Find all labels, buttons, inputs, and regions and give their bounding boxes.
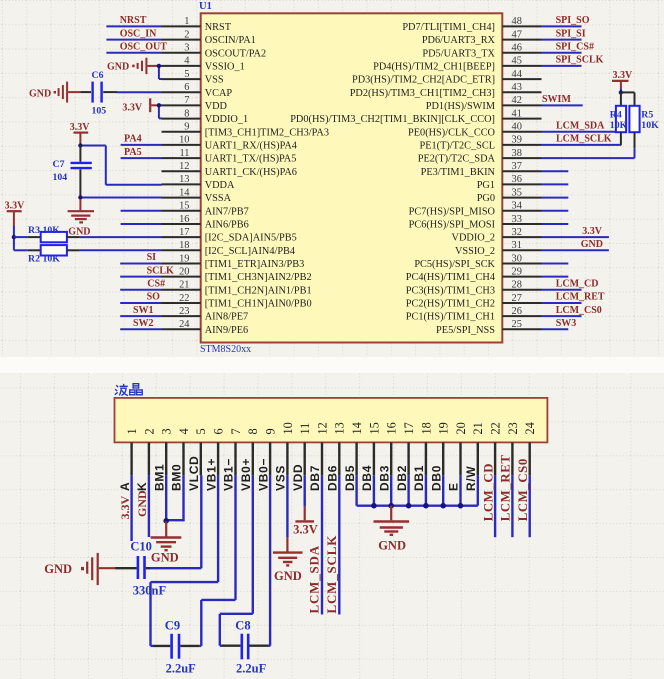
svg-text:LCM_RET: LCM_RET bbox=[556, 292, 605, 303]
svg-text:48: 48 bbox=[512, 16, 522, 27]
svg-text:PG1: PG1 bbox=[477, 180, 495, 191]
svg-text:VDD: VDD bbox=[291, 464, 305, 491]
svg-text:VB1+: VB1+ bbox=[204, 458, 218, 491]
svg-text:3.3V: 3.3V bbox=[122, 103, 142, 114]
wire VSSA pin14 bbox=[80, 197, 161, 199]
svg-text:[TIM1_ETR]AIN3/PB3: [TIM1_ETR]AIN3/PB3 bbox=[205, 259, 305, 270]
svg-text:VB0−: VB0− bbox=[256, 458, 270, 491]
svg-text:32: 32 bbox=[512, 227, 522, 238]
svg-text:VB1−: VB1− bbox=[222, 458, 236, 491]
wire pin2 GND K bbox=[148, 475, 150, 537]
U1 left pin 4 bbox=[162, 65, 201, 67]
wire SPI_CS# net bbox=[542, 52, 582, 54]
U1 right pin 44 bbox=[502, 78, 541, 80]
svg-text:PD5/UART3_TX: PD5/UART3_TX bbox=[422, 48, 495, 59]
wire pin7 to pin8 bbox=[159, 104, 162, 106]
U1 left pin 21 bbox=[162, 289, 201, 291]
U1 right pin 28 bbox=[502, 289, 541, 291]
U1 left pin 12 bbox=[162, 170, 201, 172]
svg-text:17: 17 bbox=[179, 227, 189, 238]
svg-text:12: 12 bbox=[315, 422, 329, 434]
U1 right pin 32 bbox=[502, 236, 541, 238]
wire LCM_CD pin22 bbox=[494, 475, 496, 537]
U1 left pin 13 bbox=[162, 183, 201, 185]
svg-text:41: 41 bbox=[512, 108, 522, 119]
U1 left pin 14 bbox=[162, 197, 201, 199]
svg-text:10K: 10K bbox=[43, 254, 61, 265]
junction R4/R5 top bbox=[619, 90, 623, 94]
U1 right pin 30 bbox=[502, 263, 541, 265]
U1 left pin 15 bbox=[162, 210, 201, 212]
svg-text:LCM_CS0: LCM_CS0 bbox=[556, 305, 602, 316]
svg-text:4: 4 bbox=[177, 428, 191, 434]
connector pin 8 bbox=[252, 442, 254, 475]
svg-text:R/W: R/W bbox=[464, 466, 478, 491]
svg-text:18: 18 bbox=[419, 422, 433, 434]
svg-text:PC7(HS)/SPI_MISO: PC7(HS)/SPI_MISO bbox=[409, 206, 496, 217]
svg-text:22: 22 bbox=[489, 422, 503, 434]
ground earth below data bus bbox=[390, 506, 392, 521]
svg-text:VB0+: VB0+ bbox=[239, 458, 253, 491]
U1 left pin 8 bbox=[162, 118, 201, 120]
junction C7 top bbox=[78, 143, 82, 147]
svg-text:LCM_CS0: LCM_CS0 bbox=[516, 458, 530, 521]
connector pin 17 bbox=[407, 442, 409, 475]
wire SWIM net bbox=[542, 104, 583, 106]
wire BM0 bbox=[182, 475, 184, 521]
U1 right pin 48 bbox=[502, 25, 541, 27]
seam between two schematic screenshots bbox=[0, 357, 664, 373]
svg-text:LCM_SCLK: LCM_SCLK bbox=[556, 134, 612, 145]
svg-text:DB7: DB7 bbox=[308, 465, 322, 491]
wire 3.3V net pin32 bbox=[542, 236, 609, 238]
svg-text:19: 19 bbox=[437, 422, 451, 434]
svg-text:43: 43 bbox=[512, 82, 522, 93]
svg-text:PD1(HS)/SWIM: PD1(HS)/SWIM bbox=[426, 101, 495, 112]
svg-text:8: 8 bbox=[184, 108, 189, 119]
wire 3.3V rail to R3/R2 bbox=[13, 225, 15, 250]
svg-text:15: 15 bbox=[179, 201, 189, 212]
U1 left pin 18 bbox=[162, 249, 201, 251]
wire C10 to VLCD pin5 bbox=[150, 567, 201, 569]
wire VB0+ pin8 to C8 bbox=[252, 475, 254, 614]
junction R3 rail bbox=[12, 235, 16, 239]
wire pin38 net (to R5) bbox=[542, 157, 635, 159]
svg-text:3.3V: 3.3V bbox=[118, 496, 132, 520]
svg-text:BM0: BM0 bbox=[170, 464, 184, 491]
svg-text:18: 18 bbox=[179, 240, 189, 251]
svg-text:VDDIO_1: VDDIO_1 bbox=[205, 114, 248, 125]
wire DB7 pin12 (LCM_SDA) bbox=[321, 475, 323, 614]
connector pin 6 bbox=[217, 442, 219, 475]
svg-text:3.3V: 3.3V bbox=[293, 523, 318, 537]
svg-text:9: 9 bbox=[184, 122, 189, 133]
svg-text:[I2C_SDA]AIN5/PB5: [I2C_SDA]AIN5/PB5 bbox=[205, 233, 297, 244]
svg-text:VSSIO_2: VSSIO_2 bbox=[455, 246, 495, 257]
wire NRST net bbox=[106, 25, 161, 27]
svg-text:AIN9/PE6: AIN9/PE6 bbox=[205, 325, 248, 336]
svg-text:[TIM1_CH3N]AIN2/PB2: [TIM1_CH3N]AIN2/PB2 bbox=[205, 272, 312, 283]
connector LCD (liquid crystal) body bbox=[115, 398, 548, 443]
IC U1 STM8S20xx body bbox=[201, 13, 503, 342]
resistor R3 bbox=[14, 236, 28, 238]
svg-text:PC4(HS)/TIM1_CH4: PC4(HS)/TIM1_CH4 bbox=[406, 272, 495, 283]
svg-text:LCM_SCLK: LCM_SCLK bbox=[324, 535, 339, 614]
U1 left pin 5 bbox=[162, 78, 201, 80]
svg-text:GND: GND bbox=[107, 62, 129, 73]
U1 left pin 9 bbox=[162, 131, 201, 133]
svg-text:42: 42 bbox=[512, 95, 522, 106]
svg-text:1: 1 bbox=[125, 428, 139, 434]
connector pin 13 bbox=[338, 442, 340, 475]
wire PA4 net bbox=[121, 144, 162, 146]
svg-text:17: 17 bbox=[402, 422, 416, 434]
connector pin 23 bbox=[511, 442, 513, 475]
wire stub pin25 bbox=[542, 328, 569, 330]
wire SO net bbox=[120, 302, 161, 304]
wire LCM_CD net bbox=[542, 289, 582, 291]
svg-text:AIN8/PE7: AIN8/PE7 bbox=[205, 312, 248, 323]
U1 right pin 31 bbox=[502, 249, 541, 251]
U1 left pin 7 bbox=[162, 104, 201, 106]
ground earth below C7 bbox=[79, 199, 81, 210]
svg-text:[TIM1_CH1N]AIN0/PB0: [TIM1_CH1N]AIN0/PB0 bbox=[205, 299, 312, 310]
svg-text:PE5/SPI_NSS: PE5/SPI_NSS bbox=[436, 325, 495, 336]
svg-text:37: 37 bbox=[512, 161, 522, 172]
svg-text:3: 3 bbox=[160, 428, 174, 434]
svg-text:OSC_IN: OSC_IN bbox=[120, 28, 157, 39]
svg-text:UART1_RX/(HS)PA4: UART1_RX/(HS)PA4 bbox=[205, 141, 297, 152]
svg-text:E: E bbox=[447, 482, 461, 491]
svg-text:PE2(T)/T2C_SDA: PE2(T)/T2C_SDA bbox=[418, 154, 496, 165]
svg-text:PD3(HS)/TIM2_CH2[ADC_ETR]: PD3(HS)/TIM2_CH2[ADC_ETR] bbox=[352, 75, 495, 86]
svg-text:VSSA: VSSA bbox=[205, 193, 232, 204]
svg-text:GND: GND bbox=[135, 490, 149, 517]
svg-text:23: 23 bbox=[506, 422, 520, 434]
svg-text:25: 25 bbox=[512, 319, 522, 330]
svg-text:44: 44 bbox=[512, 69, 523, 80]
svg-text:LCM_SDA: LCM_SDA bbox=[556, 121, 605, 132]
svg-text:16: 16 bbox=[179, 214, 189, 225]
svg-text:U1: U1 bbox=[199, 1, 212, 12]
svg-text:SWIM: SWIM bbox=[542, 94, 571, 105]
svg-text:30: 30 bbox=[512, 253, 522, 264]
U1 right pin 40 bbox=[502, 131, 541, 133]
svg-text:PG0: PG0 bbox=[477, 193, 495, 204]
junction bus pin15 bbox=[371, 503, 377, 509]
svg-text:2: 2 bbox=[142, 428, 156, 434]
U1 right pin 37 bbox=[502, 170, 541, 172]
svg-text:10K: 10K bbox=[610, 120, 628, 131]
svg-text:36: 36 bbox=[512, 174, 522, 185]
svg-text:PE1(T)/T2C_SCL: PE1(T)/T2C_SCL bbox=[419, 141, 495, 152]
svg-text:OSC_OUT: OSC_OUT bbox=[120, 41, 168, 52]
U1 left pin 6 bbox=[162, 91, 201, 93]
svg-text:UART1_CK/(HS)PA6: UART1_CK/(HS)PA6 bbox=[205, 167, 297, 178]
U1 right pin 33 bbox=[502, 223, 541, 225]
wire SCLK net bbox=[120, 276, 161, 278]
svg-text:5: 5 bbox=[194, 428, 208, 434]
wire stub pin30 bbox=[542, 263, 569, 265]
connector pin 14 bbox=[355, 442, 357, 475]
connector pin 2 bbox=[148, 442, 150, 475]
capacitor C8 bbox=[220, 645, 222, 647]
svg-text:GND: GND bbox=[68, 227, 90, 238]
svg-text:SO: SO bbox=[147, 292, 161, 303]
U1 left pin 11 bbox=[162, 157, 201, 159]
U1 right pin 25 bbox=[502, 328, 541, 330]
svg-text:7: 7 bbox=[229, 428, 243, 434]
wire OSC_IN net bbox=[106, 39, 161, 41]
svg-text:2.2uF: 2.2uF bbox=[236, 662, 267, 676]
svg-text:C8: C8 bbox=[235, 619, 250, 633]
svg-text:GND: GND bbox=[581, 239, 603, 250]
svg-text:3.3V: 3.3V bbox=[613, 70, 634, 81]
U1 right pin 26 bbox=[502, 315, 541, 317]
junction bus pin20 bbox=[458, 503, 464, 509]
connector pin 3 bbox=[165, 442, 167, 475]
connector pin 7 bbox=[234, 442, 236, 475]
wire SPI_SCLK net bbox=[542, 65, 582, 67]
svg-text:35: 35 bbox=[512, 187, 522, 198]
svg-text:OSCIN/PA1: OSCIN/PA1 bbox=[205, 35, 256, 46]
svg-text:UART1_TX/(HS)PA5: UART1_TX/(HS)PA5 bbox=[205, 154, 297, 165]
U1 right pin 34 bbox=[502, 210, 541, 212]
wire LCM_RET pin23 bbox=[511, 475, 513, 537]
svg-text:38: 38 bbox=[512, 148, 522, 159]
connector pin 24 bbox=[529, 442, 531, 475]
connector pin 10 bbox=[286, 442, 288, 475]
U1 right pin 27 bbox=[502, 302, 541, 304]
wire CS# net bbox=[120, 289, 161, 291]
svg-text:SPI_SO: SPI_SO bbox=[556, 15, 590, 26]
wire C9 to VB1- pin7 bbox=[200, 600, 202, 646]
svg-text:3: 3 bbox=[184, 43, 189, 54]
svg-text:11: 11 bbox=[298, 423, 312, 435]
svg-text:14: 14 bbox=[350, 422, 364, 434]
svg-text:SI: SI bbox=[147, 252, 157, 263]
svg-text:R2: R2 bbox=[28, 254, 40, 265]
wire stub pin36 bbox=[542, 183, 569, 185]
svg-text:DB2: DB2 bbox=[395, 465, 409, 491]
svg-text:3.3V: 3.3V bbox=[582, 226, 603, 237]
svg-text:26: 26 bbox=[512, 306, 522, 317]
svg-text:45: 45 bbox=[512, 56, 522, 67]
wire stub pin29 bbox=[542, 276, 569, 278]
wire SI net bbox=[120, 263, 161, 265]
ground earth below VSS bbox=[286, 537, 288, 551]
U1 right pin 38 bbox=[502, 157, 541, 159]
svg-text:PD7/TLI[TIM1_CH4]: PD7/TLI[TIM1_CH4] bbox=[402, 22, 495, 33]
svg-text:SW1: SW1 bbox=[133, 305, 154, 316]
U1 right pin 42 bbox=[502, 104, 541, 106]
U1 right pin 35 bbox=[502, 197, 541, 199]
svg-text:LCM_CD: LCM_CD bbox=[481, 463, 495, 521]
svg-text:7: 7 bbox=[184, 95, 189, 106]
junction bus pin17 bbox=[406, 503, 412, 509]
U1 right pin 46 bbox=[502, 52, 541, 54]
svg-text:6: 6 bbox=[212, 428, 226, 434]
U1 left pin 10 bbox=[162, 144, 201, 146]
svg-text:DB3: DB3 bbox=[377, 465, 391, 491]
svg-text:VDDA: VDDA bbox=[205, 180, 235, 191]
connector pin 18 bbox=[425, 442, 427, 475]
svg-text:AIN6/PB6: AIN6/PB6 bbox=[205, 220, 249, 231]
svg-text:GND: GND bbox=[378, 538, 406, 552]
svg-text:NRST: NRST bbox=[205, 22, 232, 33]
U1 left pin 24 bbox=[162, 328, 201, 330]
svg-text:DB0: DB0 bbox=[429, 465, 443, 491]
connector pin 1 bbox=[130, 442, 132, 475]
svg-text:PC1(HS)/TIM1_CH1: PC1(HS)/TIM1_CH1 bbox=[406, 312, 495, 323]
svg-text:16: 16 bbox=[385, 422, 399, 434]
svg-text:19: 19 bbox=[179, 253, 189, 264]
svg-text:29: 29 bbox=[512, 266, 522, 277]
connector pin 20 bbox=[459, 442, 461, 475]
U1 left pin 17 bbox=[162, 236, 201, 238]
svg-text:27: 27 bbox=[512, 293, 522, 304]
svg-text:GND: GND bbox=[29, 89, 51, 100]
wire R3 to pin17 bbox=[80, 236, 162, 238]
svg-text:GND: GND bbox=[274, 569, 302, 583]
svg-text:11: 11 bbox=[179, 148, 189, 159]
svg-text:1: 1 bbox=[184, 16, 189, 27]
svg-text:13: 13 bbox=[333, 422, 347, 434]
svg-text:SPI_SCLK: SPI_SCLK bbox=[556, 55, 604, 66]
junction C7 bottom bbox=[78, 195, 82, 199]
svg-text:AIN7/PB7: AIN7/PB7 bbox=[205, 206, 249, 217]
svg-text:R3: R3 bbox=[28, 225, 40, 236]
connector pin 11 bbox=[304, 442, 306, 475]
power 3.3V port below VDD bbox=[304, 507, 306, 521]
svg-text:VSS: VSS bbox=[274, 465, 288, 491]
svg-text:21: 21 bbox=[471, 422, 485, 434]
svg-text:PC2(HS)/TIM1_CH2: PC2(HS)/TIM1_CH2 bbox=[406, 299, 495, 310]
svg-text:VCAP: VCAP bbox=[205, 88, 233, 99]
junction bus pin16 bbox=[388, 503, 394, 509]
U1 left pin 19 bbox=[162, 263, 201, 265]
svg-text:A: A bbox=[118, 482, 132, 491]
junction bus pin18 bbox=[423, 503, 429, 509]
wire LCM_SCLK net (to R4) bbox=[542, 144, 622, 146]
wire VCAP net bbox=[117, 91, 162, 93]
svg-text:8: 8 bbox=[246, 428, 260, 434]
svg-text:13: 13 bbox=[179, 174, 189, 185]
connector pin 5 bbox=[200, 442, 202, 475]
svg-text:33: 33 bbox=[512, 214, 522, 225]
wire PA5 net bbox=[121, 157, 162, 159]
wire SPI_SO net bbox=[542, 25, 582, 27]
wire DB5..R/W ground bus bbox=[355, 475, 357, 505]
connector pin 21 bbox=[477, 442, 479, 475]
wire VB1+ pin6 to C9 bbox=[217, 475, 219, 582]
connector pin 16 bbox=[390, 442, 392, 475]
svg-text:10K: 10K bbox=[641, 120, 659, 131]
svg-text:2.2uF: 2.2uF bbox=[166, 662, 197, 676]
wire OSC_OUT net bbox=[106, 52, 161, 54]
svg-text:10K: 10K bbox=[43, 225, 61, 236]
svg-text:34: 34 bbox=[512, 201, 523, 212]
svg-text:PD2(HS)/TIM3_CH1[TIM2_CH3]: PD2(HS)/TIM3_CH1[TIM2_CH3] bbox=[350, 88, 495, 99]
U1 left pin 23 bbox=[162, 315, 201, 317]
svg-text:LCM_CD: LCM_CD bbox=[556, 279, 599, 290]
svg-text:PE0(HS)/CLK_CCO: PE0(HS)/CLK_CCO bbox=[408, 127, 496, 138]
wire stub pin33 bbox=[542, 223, 569, 225]
wire pin4 to pin5 gnd bbox=[159, 65, 162, 67]
wire stub pin15 bbox=[121, 210, 162, 212]
svg-text:PA4: PA4 bbox=[124, 134, 142, 145]
ground earth below BM1/BM0 bbox=[165, 521, 167, 536]
svg-text:40: 40 bbox=[512, 122, 522, 133]
U1 right pin 41 bbox=[502, 118, 541, 120]
U1 right pin 47 bbox=[502, 39, 541, 41]
svg-text:GND: GND bbox=[44, 562, 72, 576]
svg-text:4: 4 bbox=[184, 56, 190, 67]
wire pin1 3.3V A bbox=[130, 475, 132, 541]
svg-text:OSCOUT/PA2: OSCOUT/PA2 bbox=[205, 48, 266, 59]
svg-text:12: 12 bbox=[179, 161, 189, 172]
capacitor C6 bbox=[80, 91, 91, 93]
svg-text:9: 9 bbox=[264, 428, 278, 434]
svg-text:2: 2 bbox=[184, 29, 189, 40]
svg-text:24: 24 bbox=[523, 422, 537, 434]
U1 left pin 16 bbox=[162, 223, 201, 225]
wire VSS pin10 to gnd bbox=[286, 475, 288, 537]
designator LCD (liquid crystal kanji) bbox=[115, 384, 142, 396]
svg-text:C9: C9 bbox=[165, 619, 180, 633]
svg-text:DB6: DB6 bbox=[326, 465, 340, 491]
svg-text:SCLK: SCLK bbox=[147, 265, 174, 276]
svg-text:CS#: CS# bbox=[147, 279, 165, 290]
svg-text:NRST: NRST bbox=[120, 15, 147, 26]
wire VB0- pin9 to C8 bbox=[269, 475, 271, 645]
svg-text:K: K bbox=[135, 482, 149, 491]
svg-text:3.3V: 3.3V bbox=[5, 200, 26, 211]
connector pin 9 bbox=[269, 442, 271, 475]
wire LCM_RET net bbox=[542, 302, 582, 304]
U1 left pin 2 bbox=[162, 39, 201, 41]
svg-text:[TIM1_CH2N]AIN1/PB1: [TIM1_CH2N]AIN1/PB1 bbox=[205, 285, 312, 296]
capacitor C9 bbox=[151, 645, 154, 647]
wire 3.3V rail to VDDA pin13 bbox=[80, 145, 105, 147]
svg-text:C7: C7 bbox=[53, 159, 65, 170]
connector pin 19 bbox=[442, 442, 444, 475]
U1 left pin 3 bbox=[162, 52, 201, 54]
svg-text:28: 28 bbox=[512, 280, 522, 291]
wire LCM_SDA net bbox=[542, 131, 621, 133]
wire R2 to pin18 bbox=[80, 249, 162, 251]
svg-text:DB5: DB5 bbox=[343, 465, 357, 491]
wire SW2 net bbox=[120, 328, 161, 330]
connector pin 22 bbox=[494, 442, 496, 475]
junction pin7 bbox=[157, 103, 161, 107]
svg-text:LCM_SDA: LCM_SDA bbox=[306, 545, 321, 613]
svg-text:14: 14 bbox=[179, 187, 190, 198]
svg-text:21: 21 bbox=[179, 280, 189, 291]
wire VDD pin11 to 3.3V bbox=[304, 475, 306, 506]
wire BM1 bbox=[165, 475, 167, 521]
U1 right pin 39 bbox=[502, 144, 541, 146]
junction BM1/BM0 bbox=[163, 518, 169, 524]
wire SW1 net bbox=[120, 315, 161, 317]
junction pin4 bbox=[157, 64, 161, 68]
svg-text:SPI_CS#: SPI_CS# bbox=[556, 41, 594, 52]
wire LCM_CS0 net bbox=[542, 315, 582, 317]
resistor R5 bbox=[621, 91, 635, 93]
svg-text:SW3: SW3 bbox=[556, 318, 577, 329]
svg-text:22: 22 bbox=[179, 293, 189, 304]
wire GND net pin31 bbox=[542, 249, 609, 251]
